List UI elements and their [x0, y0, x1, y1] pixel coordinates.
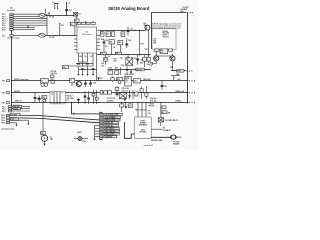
svg-text:T3: T3 — [70, 80, 72, 82]
svg-text:WIDTH: WIDTH — [125, 78, 130, 80]
wire pin3 — [13, 18, 47, 20]
svg-text:SHOWN): SHOWN) — [140, 131, 147, 133]
wire heater feed to J5 pin1 — [71, 102, 100, 116]
capacitor C26 vertical — [125, 39, 128, 49]
grounds under U1 — [77, 74, 94, 76]
capacitor C52 mid right — [161, 80, 167, 89]
svg-text:R26: R26 — [118, 42, 121, 44]
svg-text:R63 10K: R63 10K — [143, 79, 150, 81]
wire U loop to video box — [124, 122, 134, 138]
node bus vertical collector — [46, 14, 48, 35]
connector J11 label — [7, 7, 16, 12]
svg-text:TO VIDEO BD P2: TO VIDEO BD P2 — [164, 120, 178, 122]
svg-text:GND VIDEO: GND VIDEO — [104, 128, 115, 130]
wire J4.2 long — [10, 118, 100, 123]
junction mark after buffer1 — [48, 13, 50, 15]
svg-text:COIL: COIL — [125, 80, 129, 82]
label box on J4.1 wire — [10, 113, 20, 116]
capacitor C23 vertical — [127, 27, 133, 36]
wire left drop to yoke box — [151, 13, 153, 50]
transformer T3 small — [70, 78, 75, 86]
svg-text:FB: FB — [85, 56, 87, 58]
caps cluster right of Q7 — [84, 80, 96, 87]
CRT socket V1 — [41, 135, 54, 146]
wire pin7 — [13, 26, 35, 28]
svg-text:R85: R85 — [161, 112, 164, 114]
+5V arrow top — [66, 2, 70, 5]
svg-text:C23: C23 — [130, 28, 133, 30]
svg-text:R20: R20 — [101, 33, 104, 35]
svg-text:P4.4: P4.4 — [1, 122, 5, 125]
wire pin8 — [13, 29, 35, 31]
lower bus y69.8 — [108, 69, 151, 71]
note paragraph — [151, 23, 182, 30]
svg-text:L2: L2 — [53, 2, 55, 4]
svg-text:CHASSIS: CHASSIS — [104, 136, 113, 139]
svg-text:VCC: VCC — [90, 56, 93, 58]
wire pin1 — [13, 13, 47, 15]
svg-text:GND ret: GND ret — [15, 100, 22, 103]
J11 pin 4 — [2, 20, 13, 23]
svg-text:(CRT): (CRT) — [77, 132, 82, 134]
capacitor C37 — [65, 9, 72, 11]
connector J11 body — [11, 13, 13, 112]
ground stub J4.3 — [27, 120, 29, 125]
label box on lower bus — [136, 68, 144, 71]
horizontal bus HSYNC y80.8 — [12, 80, 189, 82]
J12 pin gnd — [2, 102, 10, 105]
bridge BR2 — [74, 13, 81, 17]
svg-text:C28: C28 — [144, 49, 147, 51]
J4 pin 3 — [1, 119, 28, 122]
horizontal bus y101.8 — [12, 102, 189, 104]
svg-text:C25: C25 — [105, 40, 108, 42]
diode D7 at hsync — [97, 77, 103, 80]
sub circuit caps under U1 — [69, 62, 97, 74]
J11 pin 1 — [2, 13, 13, 16]
U1 left pins — [74, 39, 77, 50]
wire bus +12V mid — [100, 30, 145, 32]
ground stub J4.4 — [15, 123, 17, 127]
svg-text:R62: R62 — [134, 80, 137, 82]
svg-text:DETECT: DETECT — [162, 35, 168, 37]
diode D5 filled — [125, 66, 128, 74]
main bus B+ y55 — [97, 54, 151, 56]
flyback label — [151, 128, 171, 132]
svg-text:L3: L3 — [108, 56, 110, 58]
svg-text:R92: R92 — [42, 97, 45, 99]
bus3 dots — [189, 102, 195, 103]
text block right of T1 — [67, 95, 74, 102]
svg-text:R6: R6 — [71, 24, 73, 26]
wire pin5 — [13, 22, 47, 24]
svg-text:C22: C22 — [121, 33, 124, 35]
continuation dots top right — [187, 12, 193, 13]
pin labels under U1 — [79, 56, 93, 58]
relay K1 box — [41, 78, 49, 86]
yoke box T2 — [152, 29, 176, 49]
capacitor C32 — [136, 55, 143, 65]
svg-text:R5: R5 — [61, 25, 63, 27]
J11 pin 7 — [2, 27, 13, 30]
resistor chain right — [143, 55, 151, 67]
label boxes row under yoke box — [154, 49, 172, 54]
junction dots on bus — [134, 30, 140, 31]
+12V net label top right — [180, 7, 190, 13]
J4 pin 1 — [1, 114, 9, 117]
svg-text:R33: R33 — [140, 62, 143, 64]
horiz output cluster — [120, 97, 133, 112]
wire pin9 — [13, 34, 41, 36]
J12 pin c — [2, 110, 30, 113]
svg-text:ANODE: ANODE — [173, 143, 180, 146]
svg-text:VSYNC IN: VSYNC IN — [104, 125, 113, 127]
J11 pin 8 — [2, 29, 13, 32]
net labels left of fuse — [149, 104, 156, 108]
svg-text:L5: L5 — [125, 82, 127, 84]
svg-text:R91 1K: R91 1K — [149, 106, 156, 108]
svg-text:1W: 1W — [168, 112, 171, 114]
misc value labels secondary — [101, 56, 150, 69]
connector J5 body — [100, 112, 102, 139]
boxes x104-111 — [100, 91, 111, 95]
J11 pin 6 — [2, 24, 13, 27]
capacitor C25 chain — [101, 38, 108, 55]
svg-text:ANODE LEAD: ANODE LEAD — [151, 139, 163, 142]
J11 pin 5 — [2, 22, 13, 25]
svg-text:CIRCUIT: CIRCUIT — [162, 37, 168, 39]
filter FL1 top — [53, 2, 59, 10]
U1 bottom pin drops — [79, 53, 94, 66]
svg-text:PL1/8: PL1/8 — [50, 37, 55, 39]
svg-text:.047: .047 — [101, 64, 104, 67]
svg-text:HORIZ +: HORIZ + — [175, 101, 182, 103]
tall box R61 — [124, 76, 131, 86]
J4 pin 2 — [1, 117, 9, 120]
CRT heater branch — [41, 102, 46, 135]
svg-text:GND LOGIC: GND LOGIC — [104, 134, 115, 136]
svg-text:C52: C52 — [164, 86, 167, 88]
cap chain C56 — [84, 91, 90, 104]
svg-text:(NOT: (NOT — [141, 129, 145, 131]
svg-text:D7: D7 — [67, 100, 69, 102]
resistor R31 below bus — [104, 55, 108, 65]
svg-text:C44: C44 — [176, 73, 179, 76]
J5 pin boxes — [100, 114, 102, 138]
svg-text:T1: T1 — [51, 94, 53, 96]
transformer T1 — [50, 91, 65, 104]
brightness lamp DS1 — [74, 132, 88, 143]
label box on J4.2 wire — [10, 118, 18, 121]
ground at pin stub — [27, 25, 29, 28]
J12 pin vsync — [2, 92, 10, 95]
resistor R20 box — [100, 32, 104, 37]
IC U1 labels above — [77, 21, 95, 25]
svg-text:+5V BUS: +5V BUS — [11, 114, 17, 116]
svg-text:VIDEO +65: VIDEO +65 — [175, 91, 184, 93]
svg-text:P5.2: P5.2 — [2, 92, 6, 94]
svg-text:R27: R27 — [141, 43, 144, 45]
label box on that wire — [177, 70, 184, 73]
svg-text:D1: D1 — [78, 14, 80, 16]
diode D6 filled — [130, 70, 133, 74]
wire IC right drop — [96, 53, 98, 81]
transistor Q7 — [75, 81, 81, 87]
svg-text:SE/30 Analog Board: SE/30 Analog Board — [108, 6, 150, 11]
svg-text:R39 1W: R39 1W — [136, 69, 142, 71]
wire pin4 — [13, 20, 47, 22]
wire +5V down — [66, 3, 68, 15]
capacitor C22 box — [121, 32, 125, 37]
wire Q4 emitter down — [148, 31, 150, 55]
text 2 lines right edge — [150, 97, 156, 102]
transistor Q4 — [144, 22, 150, 31]
vertical comp x112 — [111, 76, 114, 82]
video board box — [135, 117, 152, 139]
svg-text:R90: R90 — [41, 133, 44, 135]
wire R26 to bus — [119, 45, 121, 55]
label box on bus 2 — [115, 52, 121, 55]
svg-text:J11: J11 — [10, 7, 13, 9]
svg-text:U5: U5 — [41, 81, 43, 83]
wire horiz to right bus — [171, 70, 186, 72]
svg-text:R2: R2 — [75, 21, 77, 23]
pot R92 box — [42, 95, 47, 102]
svg-text:P1.8: P1.8 — [2, 30, 6, 32]
svg-text:P5.3: P5.3 — [2, 102, 6, 104]
svg-text:HSYNC IN: HSYNC IN — [104, 123, 113, 125]
svg-text:VIDEO: VIDEO — [140, 121, 146, 123]
svg-text:F1: F1 — [161, 107, 163, 109]
continuation dots vert wire — [186, 70, 192, 71]
svg-text:P4.2: P4.2 — [1, 117, 5, 120]
dense cluster x91-100 — [92, 90, 98, 104]
bus y80.8 dots — [189, 80, 195, 81]
J11 pin 9 — [2, 35, 13, 38]
R11 C30 labels left — [51, 71, 57, 78]
resistor box R2 — [75, 16, 80, 27]
bus junctions — [103, 54, 149, 55]
vsync dots — [189, 92, 195, 93]
svg-text:R12: R12 — [63, 67, 66, 69]
svg-text:VSYNC: VSYNC — [14, 91, 21, 93]
svg-text:R31: R31 — [104, 59, 107, 61]
svg-text:C31: C31 — [120, 58, 123, 60]
svg-text:rev. A 1 of 1: rev. A 1 of 1 — [144, 144, 153, 147]
resistor box R25 — [109, 40, 115, 55]
svg-text:+12V SWEEP: +12V SWEEP — [104, 117, 116, 119]
resistor R21 box — [106, 32, 115, 37]
transistor Q6 — [170, 54, 175, 61]
svg-text:15.7KHz: 15.7KHz — [107, 100, 114, 102]
svg-text:+5: +5 — [68, 3, 70, 5]
op-amp U1 video amp box — [77, 27, 97, 53]
optocoupler U4 — [126, 55, 133, 65]
+5V arrow mid right — [171, 73, 180, 81]
svg-text:P2.1 (ext sync): P2.1 (ext sync) — [8, 37, 20, 40]
wire Q5 emitter — [153, 61, 157, 65]
svg-text:GND SWEEP: GND SWEEP — [104, 131, 116, 133]
anode cap — [171, 135, 182, 139]
svg-text:10: 10 — [150, 65, 152, 67]
J12 pin hsync — [2, 80, 10, 83]
capacitor C81 — [38, 95, 41, 102]
buffer PL1/8 U3b — [39, 33, 46, 37]
svg-text:R21: R21 — [106, 33, 109, 35]
bridge box x119-126 — [119, 93, 126, 99]
svg-text:C42: C42 — [170, 66, 173, 69]
anode lead — [151, 136, 171, 138]
label box R62 — [133, 79, 140, 83]
J4 pin 4 — [1, 122, 16, 125]
svg-text:C70: C70 — [129, 106, 132, 108]
svg-text:IS1: IS1 — [134, 58, 137, 60]
svg-text:P4.1: P4.1 — [1, 114, 5, 117]
buffer PL1/8 U3a — [39, 9, 46, 18]
svg-text:C32: C32 — [140, 59, 143, 61]
svg-text:CRT video: CRT video — [82, 34, 92, 36]
wire buffer2 out — [45, 34, 77, 36]
svg-text:L3: L3 — [101, 53, 103, 55]
transistor Q5 — [154, 51, 159, 61]
svg-text:SENSE: SENSE — [13, 108, 18, 110]
J11 pin 2 — [2, 16, 13, 19]
text above flyback — [148, 111, 151, 115]
box R60 — [117, 77, 123, 83]
svg-text:PL1/8: PL1/8 — [50, 17, 55, 19]
U1 right pins — [97, 30, 101, 50]
svg-text:HSYNC from logic: HSYNC from logic — [14, 79, 29, 81]
wire pin6 — [13, 24, 47, 26]
svg-text:R24: R24 — [101, 38, 104, 41]
svg-text:.01: .01 — [113, 47, 115, 49]
wire drop x139.5 — [139, 30, 141, 55]
svg-text:D7: D7 — [101, 78, 103, 80]
vertical bus right — [187, 13, 189, 104]
horizontal bus VSYNC y93.5 — [12, 92, 189, 94]
svg-text:C37: C37 — [69, 10, 72, 12]
J5 ground comb — [93, 126, 100, 141]
anode label — [173, 141, 180, 145]
resistor box R26 — [118, 41, 123, 45]
J12 pin b — [2, 108, 30, 111]
svg-text:P3.3: P3.3 — [2, 111, 6, 113]
wire top right horizontal — [152, 12, 187, 14]
svg-text:(to logic board): (to logic board) — [2, 127, 15, 130]
svg-text:VERT: VERT — [177, 71, 181, 73]
J12 pin a — [2, 105, 30, 108]
wire buffer1 out — [45, 15, 76, 17]
capacitor C80 — [34, 92, 40, 102]
svg-text:C50: C50 — [93, 82, 96, 84]
svg-text:R25: R25 — [109, 41, 112, 43]
wire Q6 emitter — [171, 61, 173, 71]
diode D8 filled — [77, 98, 80, 104]
label box on bus 1 — [100, 52, 106, 55]
bias box on sync line — [70, 22, 75, 36]
wire drops into video box — [138, 102, 147, 117]
svg-text:SWEEP: SWEEP — [162, 31, 168, 33]
J5 pin numbers — [97, 114, 98, 138]
components mid row — [51, 79, 55, 83]
wire J4.1 long — [10, 115, 100, 120]
svg-text:P5.1: P5.1 — [2, 80, 6, 82]
verticals with boxes x140-150 — [140, 86, 148, 99]
text block x121 — [122, 88, 130, 92]
wire pin2 — [13, 15, 41, 17]
svg-text:R30: R30 — [116, 53, 119, 55]
secondary value labels — [105, 40, 147, 51]
svg-text:FLYBACK: FLYBACK — [163, 129, 172, 132]
svg-text:VIDEO DATA: VIDEO DATA — [104, 119, 116, 122]
fuse chain components — [160, 102, 170, 118]
label Q5 out — [150, 62, 153, 67]
wire Q5-Q6 base link — [157, 55, 171, 57]
J11 pin 3 — [2, 18, 13, 21]
svg-text:DS1: DS1 — [82, 141, 85, 143]
svg-text:(ext video): (ext video) — [7, 9, 16, 12]
components on lower bus — [108, 67, 121, 75]
svg-text:GND: GND — [79, 56, 82, 58]
junction — [66, 15, 67, 16]
svg-text:C36: C36 — [121, 65, 124, 67]
svg-text:+5V LOGIC PWR: +5V LOGIC PWR — [104, 114, 119, 116]
svg-text:C60 .01: C60 .01 — [122, 90, 128, 92]
svg-text:P4.3: P4.3 — [1, 119, 5, 122]
resistor R12 label box — [62, 66, 68, 69]
cluster with diode x128-138 — [128, 90, 138, 99]
chain x114-120 — [115, 86, 119, 96]
svg-text:P2.1: P2.1 — [2, 35, 6, 37]
pulldown on sync line — [59, 23, 64, 36]
svg-text:R80 C72 D12: R80 C72 D12 — [136, 109, 146, 111]
J5 net labels — [104, 113, 123, 138]
svg-text:220: 220 — [114, 60, 117, 62]
X box component — [158, 118, 178, 126]
